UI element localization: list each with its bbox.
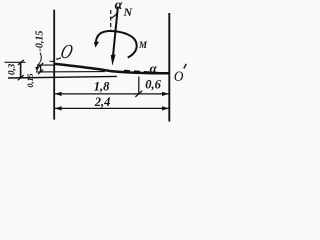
right vertical wall line at O' bbox=[168, 13, 170, 122]
separator tick vertical at x=138.8 bbox=[138, 77, 140, 95]
svg-text:2,4: 2,4 bbox=[94, 95, 111, 109]
small angle arc alpha top bbox=[111, 13, 117, 18]
separator oblique tick bbox=[135, 91, 142, 97]
svg-text:N: N bbox=[123, 5, 134, 19]
svg-text:α: α bbox=[150, 60, 158, 75]
line L1 top of 0,3 bracket bbox=[5, 61, 26, 63]
baseline L5 bbox=[8, 76, 117, 78]
force N arrowhead bbox=[111, 55, 116, 66]
svg-text:1,8: 1,8 bbox=[94, 80, 110, 94]
right arrow of 2,4 bbox=[162, 106, 169, 110]
0,3 tick bottom bbox=[18, 75, 24, 80]
leader from -0,15 to L3 bbox=[37, 53, 42, 70]
left vertical axis through O bbox=[53, 10, 55, 120]
moment M arrowhead bbox=[94, 42, 99, 48]
O bottom curl bbox=[56, 58, 61, 60]
svg-text:-0,15: -0,15 bbox=[35, 31, 46, 52]
0,3 tick top bbox=[18, 60, 24, 65]
0,3 dimension vertical line bbox=[20, 62, 22, 78]
line L2 at O level bbox=[37, 64, 54, 66]
left arrow of 1,8 bbox=[55, 92, 62, 96]
svg-text:0,3: 0,3 bbox=[7, 63, 17, 75]
leader arrowhead bbox=[35, 67, 39, 72]
0,15 dimension vertical line bbox=[40, 65, 42, 72]
stub of L1 at axis bbox=[50, 60, 55, 62]
dimension line 1,8 / 0,6 at y=93.9 bbox=[55, 93, 170, 95]
dashed line near O' (initial position) bbox=[124, 70, 168, 73]
dashed vertical at N bbox=[110, 10, 112, 30]
svg-text:α: α bbox=[115, 0, 123, 13]
prime of O' bbox=[184, 64, 187, 69]
0,15 tick bottom bbox=[38, 70, 43, 75]
line L3 at -0,15 level bbox=[36, 71, 105, 73]
force N shaft bbox=[113, 7, 118, 56]
angle tick under alpha near O' bbox=[148, 72, 157, 74]
dimension line 2,4 at y=108.4 bbox=[55, 107, 170, 109]
left arrow of 2,4 bbox=[55, 106, 62, 110]
right arrow of 0,6 bbox=[162, 92, 169, 96]
svg-text:0,15: 0,15 bbox=[26, 74, 35, 88]
moment M arc bbox=[96, 31, 137, 58]
rod O O' (curved slightly) bbox=[55, 64, 169, 73]
0,15 tick top bbox=[38, 63, 43, 68]
svg-text:M: M bbox=[138, 40, 148, 50]
svg-text:O: O bbox=[174, 68, 184, 85]
svg-text:0,6: 0,6 bbox=[145, 77, 161, 91]
